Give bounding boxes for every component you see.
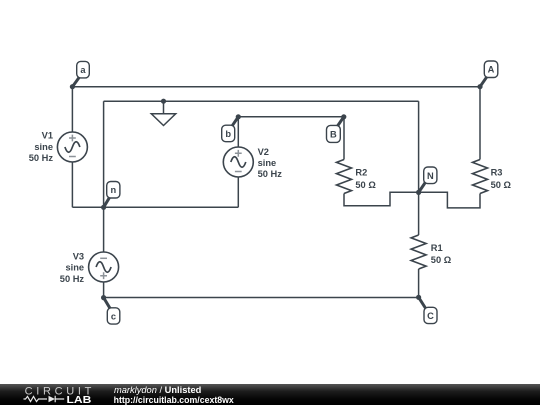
node flag A [480, 61, 498, 87]
wire V1 bottom lead [71, 162, 73, 207]
voltage source V2 sine [231, 157, 246, 168]
voltage source V2 circle [223, 147, 253, 177]
svg-text:R1: R1 [431, 243, 443, 253]
svg-text:B: B [330, 129, 337, 139]
CircuitLab logo resistor zigzag [24, 396, 48, 401]
wire V1 top lead [71, 87, 73, 132]
V3 polarity plus [100, 272, 107, 279]
junction dot node c [101, 295, 106, 300]
wire V2 bottom lead [237, 177, 239, 207]
V3 polarity minus [100, 257, 107, 259]
label V1 name and value [29, 131, 85, 284]
V2 polarity plus [235, 150, 242, 157]
ground triangle [151, 114, 175, 126]
V2 polarity minus [235, 171, 242, 173]
junction dot node B [341, 114, 346, 119]
voltage source V3 circle [89, 252, 119, 282]
node flag c [104, 298, 120, 324]
svg-text:R3: R3 [491, 168, 503, 178]
V1 polarity plus [69, 135, 242, 279]
svg-text:C: C [427, 311, 434, 321]
svg-text:V2: V2 [258, 147, 269, 157]
svg-text:50 Hz: 50 Hz [29, 153, 54, 163]
svg-text:V1: V1 [42, 131, 53, 141]
wire a to A (top horizontal) [72, 86, 480, 88]
svg-text:50 Ω: 50 Ω [355, 180, 376, 190]
wire R3 bottom to node N [419, 192, 480, 208]
wire R2 bottom to node N [344, 192, 419, 206]
junction dot node N [416, 190, 421, 195]
wire V2 top lead [237, 117, 239, 147]
svg-text:N: N [427, 171, 434, 181]
V1 polarity minus [69, 156, 76, 158]
wire A to R3 top [479, 87, 481, 160]
node flag C [419, 297, 437, 323]
svg-text:marklydon / Unlisted: marklydon / Unlisted [114, 385, 202, 395]
junction dot node a [70, 84, 483, 300]
svg-text:a: a [80, 65, 86, 75]
voltage source V1 sine [65, 142, 80, 153]
svg-text:50 Ω: 50 Ω [491, 180, 512, 190]
wire right vertical to N [418, 101, 420, 192]
node flag n [104, 182, 120, 208]
resistor R2 [337, 160, 352, 194]
wire N to R1 top [418, 192, 420, 235]
resistor R1 [411, 235, 426, 269]
svg-text:sine: sine [34, 142, 53, 152]
footer bar [0, 384, 540, 405]
node flag b [222, 117, 239, 142]
svg-text:V3: V3 [73, 251, 84, 261]
wire bottom horizontal c to C [104, 297, 419, 299]
node flag B [327, 117, 344, 143]
junction dot node A [477, 84, 482, 89]
wire V3 bottom lead [103, 282, 105, 298]
wire left neutral vertical [103, 101, 105, 252]
svg-text:c: c [111, 311, 116, 321]
node flag N [419, 167, 437, 192]
svg-text:sine: sine [65, 263, 84, 273]
wire inner horizontal (n to N top) [104, 100, 419, 102]
svg-text:sine: sine [258, 158, 277, 168]
junction dot node b [236, 114, 241, 119]
resistor R3 [473, 160, 488, 194]
wire b to B horizontal [238, 116, 343, 118]
junction dot ground tap [161, 99, 166, 104]
svg-text:b: b [225, 129, 231, 139]
svg-text:A: A [488, 65, 495, 75]
svg-text:http://circuitlab.com/cext8wx: http://circuitlab.com/cext8wx [114, 395, 235, 405]
junction dot node n [101, 205, 106, 210]
svg-text:n: n [110, 185, 116, 195]
ground stem [163, 101, 165, 114]
svg-text:50 Ω: 50 Ω [431, 255, 452, 265]
junction dot node C [416, 295, 421, 300]
svg-text:LAB: LAB [67, 395, 92, 405]
svg-text:50 Hz: 50 Hz [258, 169, 283, 179]
label V2 name and value [258, 147, 512, 265]
wire n horizontal (V1 to V2 bottom) [72, 206, 238, 208]
wire R2 top lead [343, 117, 345, 160]
node flag a [72, 61, 89, 86]
wire R1 bottom lead [418, 269, 420, 297]
CircuitLab logo diode [49, 396, 56, 402]
voltage source V1 circle [57, 132, 87, 162]
voltage source V3 sine [96, 262, 111, 273]
svg-text:R2: R2 [355, 168, 367, 178]
svg-text:50 Hz: 50 Hz [60, 274, 85, 284]
